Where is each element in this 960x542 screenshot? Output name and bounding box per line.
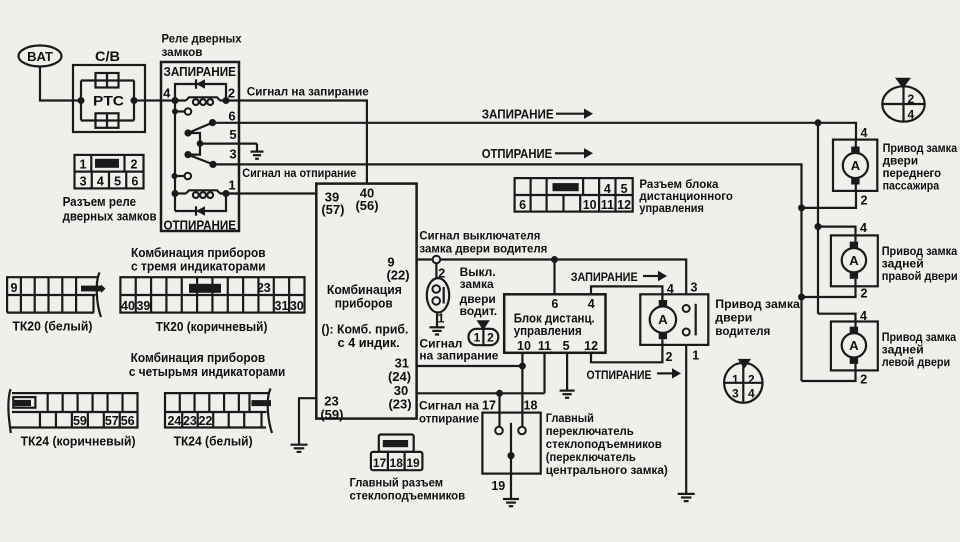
connector TK20 brown — [120, 277, 304, 313]
svg-text:22: 22 — [198, 414, 212, 428]
wire pin 5 to ground — [200, 143, 257, 145]
node lock bus junction act2 — [815, 223, 822, 230]
relay common vertical wire — [174, 101, 176, 212]
wire remote pin12 to actuator pin2 — [591, 345, 662, 362]
node lock bus corner — [815, 119, 822, 126]
connector TK24 brown — [8, 389, 137, 433]
svg-text:4: 4 — [588, 297, 595, 311]
svg-text:2: 2 — [908, 92, 915, 106]
label Выкл. замка двери водит. — [460, 265, 498, 318]
svg-text:56: 56 — [121, 414, 135, 428]
svg-text:Привод замка: Привод замка — [715, 297, 800, 311]
wire cluster pin30 line — [417, 392, 545, 394]
wire remote pin11 down — [543, 353, 545, 394]
PTC element — [73, 73, 145, 128]
svg-text:1: 1 — [692, 349, 699, 363]
svg-text:5: 5 — [621, 182, 628, 196]
svg-text:3: 3 — [80, 174, 87, 188]
node junction pin31/pin10 — [519, 363, 526, 370]
svg-text:Главный разъем: Главный разъем — [350, 476, 444, 490]
heading cluster 3 indicators — [131, 246, 266, 274]
wire remote pin10 down — [521, 353, 523, 427]
wire C/B to relay pin 4 — [145, 99, 161, 101]
svg-text:правой двери: правой двери — [882, 269, 958, 283]
svg-text:(): Комб. приб.: (): Комб. приб. — [321, 323, 408, 337]
driver door lock switch S1 — [427, 263, 449, 325]
svg-text:4: 4 — [748, 386, 755, 400]
ground cluster pin 23 — [291, 442, 308, 452]
svg-text:с 4 индик.: с 4 индик. — [338, 336, 400, 350]
svg-text:Сигнал на запирание: Сигнал на запирание — [247, 84, 369, 98]
svg-text:5: 5 — [229, 127, 236, 142]
svg-text:17: 17 — [482, 399, 496, 413]
battery BAT — [19, 46, 62, 67]
svg-text:18: 18 — [390, 456, 404, 470]
connector 1 2 with pointer — [469, 320, 499, 345]
svg-text:Комбинация: Комбинация — [327, 283, 402, 297]
window switch label — [546, 411, 668, 477]
svg-text:ОТПИРАНИЕ: ОТПИРАНИЕ — [482, 147, 553, 161]
circuit breaker C/B box — [73, 49, 145, 132]
instrument cluster box — [316, 184, 416, 419]
svg-text:A: A — [658, 312, 668, 327]
svg-text:2: 2 — [861, 193, 868, 207]
label ЗАПИРАНИЕ arrow — [482, 107, 593, 121]
svg-text:управления: управления — [514, 324, 582, 338]
wire cluster pin31 line — [417, 365, 523, 367]
svg-text:19: 19 — [491, 479, 505, 493]
svg-text:отпирание: отпирание — [419, 411, 479, 425]
label ОТПИРАНИЕ arrow small — [587, 368, 682, 382]
svg-text:Сигнал на: Сигнал на — [419, 398, 479, 412]
svg-text:(переключатель: (переключатель — [546, 450, 636, 464]
svg-text:Разъем реле: Разъем реле — [63, 195, 137, 209]
connector TK24 white — [165, 389, 272, 434]
relay unlock coil circuit — [172, 190, 240, 216]
svg-text:ОТПИРАНИЕ: ОТПИРАНИЕ — [587, 370, 652, 382]
svg-text:Комбинация приборов: Комбинация приборов — [131, 246, 266, 260]
svg-text:центрального замка): центрального замка) — [546, 463, 668, 477]
svg-text:11: 11 — [538, 339, 551, 353]
relay label — [162, 32, 242, 60]
svg-text:10: 10 — [517, 339, 531, 353]
svg-text:2: 2 — [487, 331, 494, 345]
svg-text:левой двери: левой двери — [882, 355, 951, 369]
heading cluster 4 indicators — [129, 351, 285, 379]
remote unit name — [514, 311, 595, 338]
wire act3 pin2 to unlock bus — [802, 370, 856, 381]
window master switch box — [482, 413, 540, 474]
node unlock bus junction act2 — [798, 294, 805, 301]
svg-text:2: 2 — [666, 350, 673, 364]
svg-text:23: 23 — [257, 281, 271, 295]
svg-text:1: 1 — [732, 372, 739, 386]
svg-text:(22): (22) — [386, 268, 409, 283]
svg-text:3: 3 — [229, 147, 236, 162]
wire lock bus to act2 pin4 — [818, 227, 856, 236]
svg-text:(59): (59) — [320, 407, 343, 422]
svg-text:10: 10 — [583, 198, 597, 212]
svg-text:с тремя индикаторами: с тремя индикаторами — [131, 259, 266, 273]
ground driver door switch — [430, 313, 445, 335]
wire remote pin4 to actuator pin4 — [591, 286, 662, 294]
round connector 1 2 3 4 — [724, 359, 762, 403]
svg-text:Сигнал выключателя: Сигнал выключателя — [419, 228, 540, 242]
svg-text:12: 12 — [617, 198, 631, 212]
svg-text:Реле дверных: Реле дверных — [162, 32, 242, 46]
remote unit pin labels top — [551, 297, 594, 311]
svg-text:Главный: Главный — [546, 411, 594, 425]
svg-text:2: 2 — [131, 158, 138, 172]
rear left actuator label — [882, 330, 957, 369]
svg-text:23: 23 — [183, 414, 197, 428]
wire act1 pin2 to unlock bus — [802, 191, 857, 208]
svg-text:BAT: BAT — [27, 49, 53, 64]
svg-text:6: 6 — [228, 109, 235, 124]
front passenger actuator motor — [843, 140, 868, 191]
driver door actuator box — [640, 294, 708, 345]
svg-text:Комбинация приборов: Комбинация приборов — [131, 351, 266, 365]
svg-text:(57): (57) — [321, 202, 344, 217]
svg-text:5: 5 — [114, 174, 121, 188]
connector TK20 white — [7, 273, 105, 318]
svg-text:A: A — [849, 338, 859, 353]
svg-text:приборов: приборов — [335, 296, 393, 310]
rear left actuator motor — [842, 322, 866, 371]
relay lock coil circuit — [161, 79, 239, 105]
svg-text:4: 4 — [163, 86, 171, 101]
svg-text:замков: замков — [162, 45, 203, 59]
svg-text:4: 4 — [667, 282, 674, 296]
wire ЗАПИРАНИЕ bus — [213, 123, 819, 314]
cluster pin 40(56) label — [355, 186, 378, 214]
node junction pin30/pin11 — [496, 390, 503, 397]
svg-text:17: 17 — [373, 456, 387, 470]
remote unit pin labels bottom — [517, 339, 598, 353]
label ОТПИРАНИЕ arrow — [482, 147, 593, 161]
wire pin9 line continues — [440, 260, 686, 295]
svg-text:57: 57 — [105, 414, 119, 428]
svg-text:водителя: водителя — [715, 324, 770, 338]
svg-text:ТК24 (белый): ТК24 (белый) — [174, 435, 253, 449]
ground driver actuator pin 1 — [678, 494, 695, 501]
svg-text:6: 6 — [131, 174, 138, 188]
svg-text:2: 2 — [748, 372, 755, 386]
cluster pin 30(23) label — [388, 383, 411, 412]
svg-text:3: 3 — [732, 386, 739, 400]
svg-text:стеклоподъемников: стеклоподъемников — [546, 437, 662, 451]
svg-text:переключатель: переключатель — [546, 424, 634, 438]
svg-text:24: 24 — [167, 414, 181, 428]
node unlock bus junction act1 — [798, 204, 805, 211]
svg-text:A: A — [851, 158, 861, 173]
svg-text:30: 30 — [290, 299, 304, 313]
front passenger actuator label — [883, 141, 958, 192]
cluster pin 9(22) label — [386, 255, 409, 283]
label Сигнал на запирание (switch) — [419, 336, 498, 362]
relay K1 box — [161, 62, 239, 231]
rear right actuator label — [882, 244, 958, 283]
svg-text:(23): (23) — [388, 397, 411, 412]
svg-text:19: 19 — [406, 456, 420, 470]
wire driver actuator pin1 to ground — [685, 345, 687, 494]
svg-text:пассажира: пассажира — [883, 178, 940, 192]
relay lower fixed contact — [172, 173, 192, 180]
node junction to remote unit pin6 — [551, 256, 558, 263]
window master connector grid — [371, 435, 423, 471]
remote connector label — [639, 177, 733, 215]
svg-text:1: 1 — [474, 331, 481, 345]
svg-text:4: 4 — [860, 221, 867, 235]
label Сигнал на отпирание (lower) — [419, 398, 479, 425]
label ЗАПИРАНИЕ arrow small — [571, 271, 667, 284]
svg-text:4: 4 — [861, 126, 868, 140]
wire bus to actuator1 pin4 — [818, 123, 856, 140]
remote control unit U1 box — [504, 294, 605, 353]
driver actuator switch — [683, 304, 696, 336]
ground window switch pin 19 — [503, 499, 519, 506]
svg-text:ТК24 (коричневый): ТК24 (коричневый) — [21, 435, 136, 449]
svg-text:59: 59 — [73, 414, 87, 428]
svg-text:замка: замка — [460, 277, 494, 291]
svg-text:5: 5 — [563, 339, 570, 353]
ground relay pin 5 — [251, 144, 264, 159]
wire remote pin5 to ground — [566, 353, 568, 391]
wire remote pin6 up — [553, 260, 555, 295]
svg-text:ЗАПИРАНИЕ: ЗАПИРАНИЕ — [571, 272, 638, 284]
svg-text:управления: управления — [639, 201, 704, 215]
svg-text:2: 2 — [228, 86, 235, 101]
svg-text:Сигнал на отпирание: Сигнал на отпирание — [242, 166, 356, 180]
svg-text:2: 2 — [438, 267, 445, 281]
relay connector label — [63, 195, 157, 224]
wire cluster pin23 to ground — [299, 398, 316, 442]
svg-text:(24): (24) — [388, 369, 411, 384]
wire ОТПИРАНИЕ bus — [213, 164, 802, 381]
svg-text:1: 1 — [228, 178, 235, 193]
front passenger actuator box — [833, 140, 877, 191]
cluster pin 31(24) label — [388, 355, 411, 384]
svg-text:водит.: водит. — [460, 304, 498, 318]
cluster name text — [327, 283, 402, 311]
svg-text:ТК20 (белый): ТК20 (белый) — [12, 319, 92, 333]
svg-text:1: 1 — [80, 158, 87, 172]
wire lock signal relay pin2 to cluster pin40 — [239, 101, 367, 184]
window master connector label — [350, 476, 466, 503]
driver actuator motor M1 — [650, 294, 676, 345]
node connector circle on pin9 wire — [433, 256, 441, 264]
wire junction down to switch pin17 — [498, 393, 500, 426]
label Сигнал выключателя замка двери водителя — [419, 228, 547, 255]
svg-text:с четырьмя индикаторами: с четырьмя индикаторами — [129, 365, 285, 379]
svg-text:40: 40 — [121, 299, 135, 313]
wire unlock signal relay pin1 to cluster pin39 — [220, 192, 316, 194]
wire lock bus to act3 pin4 — [818, 314, 856, 322]
svg-text:4: 4 — [97, 174, 104, 188]
cluster pin 39(57) label — [321, 190, 344, 218]
wire switch pin19 to ground — [510, 456, 512, 499]
svg-text:замка двери водителя: замка двери водителя — [419, 241, 547, 255]
svg-text:39: 39 — [136, 299, 150, 313]
rear left actuator box — [831, 322, 878, 371]
cluster pin 23(59) label — [320, 394, 343, 422]
svg-text:ЗАПИРАНИЕ: ЗАПИРАНИЕ — [482, 107, 554, 121]
svg-text:9: 9 — [11, 281, 18, 295]
svg-text:6: 6 — [551, 297, 558, 311]
relay connector grid — [75, 155, 144, 189]
svg-text:A: A — [849, 253, 859, 268]
svg-text:C/B: C/B — [95, 49, 120, 64]
svg-text:2: 2 — [860, 373, 867, 387]
switch contacts — [495, 423, 526, 459]
round connector 2 4 — [882, 78, 924, 122]
svg-text:(56): (56) — [355, 198, 378, 213]
ground remote unit pin 5 — [560, 391, 575, 398]
svg-text:4: 4 — [860, 309, 867, 323]
wire BAT to C/B — [40, 67, 73, 101]
rear right actuator motor — [842, 235, 866, 286]
rear right actuator box — [831, 235, 878, 286]
svg-text:дверных замков: дверных замков — [63, 210, 157, 224]
svg-text:двери: двери — [715, 311, 752, 325]
relay upper fixed contact — [172, 108, 191, 115]
svg-text:11: 11 — [601, 198, 614, 212]
svg-text:31: 31 — [275, 299, 289, 313]
svg-text:12: 12 — [584, 339, 598, 353]
svg-text:PTC: PTC — [93, 94, 124, 109]
svg-text:3: 3 — [691, 281, 698, 295]
relay movable contacts — [184, 119, 216, 168]
svg-text:2: 2 — [861, 287, 868, 301]
wire cluster pin9 line — [417, 258, 433, 260]
wire act2 pin2 to unlock bus — [802, 286, 856, 297]
driver actuator label — [715, 297, 800, 338]
svg-text:ЗАПИРАНИЕ: ЗАПИРАНИЕ — [164, 64, 237, 79]
svg-text:1: 1 — [438, 312, 445, 326]
svg-text:18: 18 — [524, 399, 538, 413]
cluster note text — [321, 323, 408, 351]
svg-text:ОТПИРАНИЕ: ОТПИРАНИЕ — [164, 218, 237, 233]
svg-text:4: 4 — [908, 107, 915, 121]
remote control unit connector grid — [515, 178, 633, 212]
svg-text:стеклоподъемников: стеклоподъемников — [350, 489, 466, 503]
svg-text:на запирание: на запирание — [419, 348, 498, 362]
svg-text:4: 4 — [604, 182, 611, 196]
svg-text:6: 6 — [519, 198, 526, 212]
svg-text:ТК20 (коричневый): ТК20 (коричневый) — [156, 320, 268, 334]
